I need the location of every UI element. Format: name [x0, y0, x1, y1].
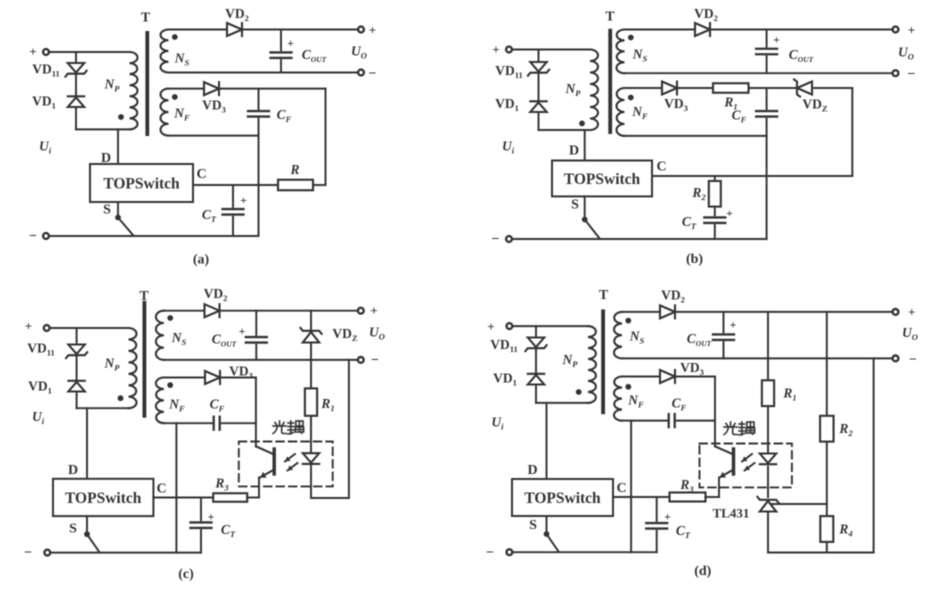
svg-text:T: T [141, 11, 151, 26]
svg-text:CT: CT [682, 214, 697, 231]
svg-text:NF: NF [631, 104, 648, 121]
svg-text:NP: NP [104, 356, 121, 373]
svg-text:VD11: VD11 [32, 62, 60, 79]
svg-text:−: − [908, 67, 916, 82]
svg-text:R1: R1 [782, 386, 796, 403]
svg-text:−: − [29, 229, 37, 244]
svg-text:−: − [486, 546, 494, 561]
svg-text:CT: CT [676, 523, 691, 540]
svg-text:UO: UO [898, 45, 914, 62]
svg-text:CF: CF [277, 107, 292, 124]
svg-text:+: + [664, 512, 671, 524]
svg-text:NS: NS [632, 47, 648, 64]
svg-text:NP: NP [104, 77, 121, 94]
svg-text:COUT: COUT [789, 47, 814, 64]
svg-text:Ui: Ui [502, 139, 515, 156]
svg-text:VD1: VD1 [495, 96, 519, 113]
svg-text:VD11: VD11 [27, 341, 55, 358]
svg-text:Ui: Ui [39, 139, 52, 156]
svg-text:VD11: VD11 [495, 63, 523, 80]
svg-text:D: D [68, 463, 78, 478]
svg-text:TOPSwitch: TOPSwitch [65, 490, 142, 507]
svg-text:CF: CF [732, 108, 747, 125]
svg-text:R4: R4 [838, 522, 852, 539]
svg-text:TOPSwitch: TOPSwitch [564, 171, 641, 188]
svg-text:+: + [25, 319, 32, 334]
svg-text:+: + [29, 44, 36, 59]
svg-text:VD2: VD2 [204, 286, 228, 303]
svg-text:S: S [103, 203, 111, 218]
svg-text:−: − [369, 67, 377, 82]
svg-text:NP: NP [562, 352, 579, 369]
svg-text:+: + [208, 512, 215, 524]
svg-text:COUT: COUT [302, 47, 327, 64]
svg-text:+: + [726, 208, 733, 220]
svg-text:VD3: VD3 [229, 364, 253, 381]
svg-text:VD3: VD3 [664, 96, 688, 113]
svg-text:CF: CF [672, 396, 687, 413]
svg-text:COUT: COUT [687, 331, 712, 348]
svg-text:+: + [240, 195, 247, 207]
svg-text:−: − [909, 353, 917, 368]
svg-text:VD3: VD3 [680, 360, 704, 377]
svg-text:VD2: VD2 [225, 6, 249, 23]
svg-text:NF: NF [627, 393, 644, 410]
svg-text:TOPSwitch: TOPSwitch [524, 490, 601, 507]
svg-text:Ui: Ui [491, 415, 504, 432]
svg-text:NS: NS [171, 330, 187, 347]
svg-text:+: + [773, 35, 780, 47]
svg-text:+: + [487, 319, 494, 334]
svg-text:(a): (a) [193, 253, 210, 268]
svg-text:D: D [569, 144, 579, 159]
svg-text:COUT: COUT [212, 332, 237, 349]
svg-text:VD1: VD1 [493, 371, 517, 388]
svg-text:UO: UO [369, 325, 385, 342]
svg-text:Ui: Ui [32, 409, 45, 426]
svg-text:+: + [239, 326, 246, 338]
svg-text:VDZ: VDZ [802, 97, 828, 114]
svg-text:C: C [156, 482, 166, 497]
svg-text:+: + [492, 42, 499, 57]
svg-text:T: T [605, 10, 615, 25]
svg-text:+: + [908, 305, 915, 320]
svg-text:D: D [101, 151, 111, 166]
svg-text:C: C [196, 167, 206, 182]
svg-text:R3: R3 [679, 477, 694, 494]
svg-text:VD11: VD11 [490, 337, 518, 354]
svg-text:(c): (c) [178, 567, 194, 582]
svg-text:NF: NF [173, 106, 190, 123]
svg-text:C: C [656, 160, 666, 175]
svg-text:−: − [371, 353, 379, 368]
svg-text:−: − [24, 546, 32, 561]
svg-text:NF: NF [168, 397, 185, 414]
svg-text:S: S [571, 198, 579, 213]
svg-text:NP: NP [565, 81, 582, 98]
svg-text:R3: R3 [214, 476, 229, 493]
svg-text:R2: R2 [838, 421, 853, 438]
svg-text:+: + [287, 38, 294, 50]
svg-text:D: D [527, 463, 537, 478]
svg-text:TL431: TL431 [713, 506, 750, 521]
svg-text:VD2: VD2 [694, 6, 718, 23]
svg-text:+: + [369, 23, 376, 38]
svg-text:+: + [908, 23, 915, 38]
svg-text:CT: CT [202, 207, 217, 224]
svg-text:CF: CF [210, 397, 225, 414]
svg-text:VD2: VD2 [661, 288, 685, 305]
svg-text:R2: R2 [691, 185, 706, 202]
svg-text:+: + [730, 320, 737, 332]
svg-text:NS: NS [174, 51, 190, 68]
svg-text:R1: R1 [320, 396, 334, 413]
svg-text:VD1: VD1 [32, 94, 56, 111]
svg-text:+: + [370, 303, 377, 318]
svg-text:−: − [492, 232, 500, 247]
svg-text:TOPSwitch: TOPSwitch [103, 175, 180, 192]
svg-text:VDZ: VDZ [332, 326, 358, 343]
svg-text:NS: NS [629, 329, 645, 346]
svg-text:C: C [616, 481, 626, 496]
svg-text:(d): (d) [694, 564, 711, 579]
svg-text:S: S [529, 518, 537, 533]
svg-text:(b): (b) [686, 252, 703, 267]
svg-text:UO: UO [351, 44, 367, 61]
svg-text:CT: CT [221, 522, 236, 539]
svg-text:VD1: VD1 [28, 379, 52, 396]
svg-text:S: S [69, 522, 77, 537]
svg-text:T: T [599, 288, 609, 303]
svg-text:R: R [289, 162, 299, 177]
svg-text:UO: UO [902, 325, 918, 342]
svg-text:VD3: VD3 [202, 98, 226, 115]
